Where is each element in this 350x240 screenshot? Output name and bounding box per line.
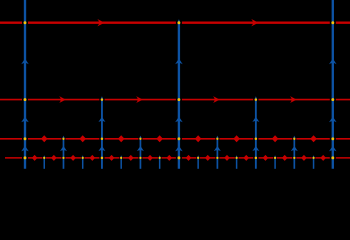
junction gap at (178.9, 138.8) [176, 137, 182, 140]
node: junction dot at (25, 99.6) [24, 98, 27, 101]
arrow tip: level-4 street terminal up-arrow at x=198.14 [197, 155, 199, 157]
node: junction dot at (101.95, 138.8) [101, 138, 104, 141]
arrow tip: level-4 street terminal up-arrow at x=121.19 [120, 155, 122, 157]
arrow: eastbound flow on level-4 road at x=323.18 [320, 155, 326, 161]
arrow: northbound flow on level-1 street at y=119.2 [329, 117, 337, 123]
wire: level-4 vertical street x=313.56 [313, 158, 315, 169]
junction gap at (25, 99.6) [22, 98, 28, 101]
arrow tip: level-4 street terminal up-arrow at x=275.09 [274, 155, 276, 157]
arrow: northbound flow on level-1 street at y=61.15 [329, 59, 337, 65]
arrow: eastbound flow on level-2 road at x=140.43 [136, 96, 143, 103]
arrow: eastbound flow on level-1 road at x=101.95 [97, 19, 104, 26]
wire: level-4 vertical street x=44.24 [43, 158, 45, 169]
junction gap at (159.66, 157.85) [158, 156, 162, 159]
node: junction dot at (101.95, 99.6) [101, 98, 104, 101]
wire: level-4 vertical street x=82.71 [82, 158, 84, 169]
diagram: hierarchical one-way grid network [0, 0, 350, 181]
arrow: eastbound flow on level-3 road at x=121.19 [118, 135, 125, 142]
arrow: eastbound flow on level-4 road at x=73.09 [70, 155, 76, 161]
junction gap at (101.95, 157.85) [99, 156, 104, 159]
arrow: eastbound flow on level-4 road at x=246.23 [243, 155, 249, 161]
arrow tip: level-4 street terminal up-arrow at x=82.71 [82, 155, 84, 157]
junction gap at (101.95, 99.6) [99, 98, 104, 101]
junction gap at (332.8, 22.7) [330, 21, 336, 25]
wire: level-2 vertical street x=101.95 [101, 100, 103, 169]
arrow: eastbound flow on level-3 road at x=236.61 [233, 135, 240, 142]
arrow: eastbound flow on level-4 road at x=226.99 [224, 155, 230, 161]
junction gap at (121.19, 157.85) [119, 156, 123, 159]
node: junction dot at (25, 22.7) [24, 21, 27, 24]
junction gap at (140.43, 157.85) [138, 156, 142, 159]
arrow: eastbound flow on level-4 road at x=265.47 [263, 155, 269, 161]
arrow tip: level-4 street terminal up-arrow at x=44.24 [43, 155, 45, 157]
node: junction dot at (25, 138.8) [24, 137, 27, 140]
junction gap at (178.9, 22.7) [176, 21, 182, 25]
wire: level-3 vertical street x=217.38 [216, 139, 218, 169]
wire: level-2 vertical street x=255.85 [255, 100, 257, 169]
arrow: northbound flow on level-1 street at y=148.32 [175, 146, 183, 152]
arrow tip: level-3 street terminal up-arrow at x=140.43 [139, 136, 141, 139]
junction gap at (178.9, 157.85) [176, 156, 182, 159]
arrow: northbound flow on level-1 street at y=61.15 [175, 59, 183, 65]
node: junction dot at (63.48, 157.85) [62, 157, 64, 159]
node: junction dot at (121.19, 157.85) [120, 157, 122, 159]
arrow: northbound flow on level-3 street at y=148.32 [137, 146, 144, 151]
junction gap at (25, 22.7) [22, 21, 28, 25]
arrow: eastbound flow on level-4 road at x=207.76 [205, 155, 211, 161]
arrow tip: level-2 street terminal up-arrow at x=101.95 [101, 96, 103, 99]
wire: level-4 vertical street x=159.66 [159, 158, 161, 169]
node: junction dot at (25, 157.85) [24, 156, 27, 159]
wire: level-1 vertical street x=332.8 [332, 0, 334, 169]
wire: level-4 vertical street x=275.09 [274, 158, 276, 169]
arrow tip: level-4 street terminal up-arrow at x=159.66 [159, 155, 161, 157]
node: junction dot at (313.56, 157.85) [312, 157, 314, 159]
junction gap at (217.38, 157.85) [215, 156, 219, 159]
arrow: eastbound flow on level-4 road at x=53.86 [51, 155, 57, 161]
node: junction dot at (217.38, 157.85) [216, 157, 218, 159]
junction gap at (332.8, 99.6) [330, 98, 336, 101]
arrow: eastbound flow on level-4 road at x=150.04 [147, 155, 153, 161]
wire: level-3 vertical street x=294.32 [293, 139, 295, 169]
arrow: eastbound flow on level-4 road at x=130.81 [128, 155, 134, 161]
node: junction dot at (332.8, 22.7) [331, 21, 334, 24]
arrow: northbound flow on level-2 street at y=119.2 [252, 117, 259, 122]
node: junction dot at (332.8, 138.8) [331, 137, 334, 140]
arrow: northbound flow on level-1 street at y=148.32 [21, 146, 29, 152]
arrow: eastbound flow on level-2 road at x=63.48 [59, 96, 66, 103]
junction gap at (255.85, 138.8) [253, 137, 258, 140]
wire: level-3 vertical street x=63.48 [62, 139, 64, 169]
arrow tip: level-3 street terminal up-arrow at x=294.32 [293, 136, 295, 139]
junction gap at (63.48, 138.8) [61, 137, 65, 140]
arrow tip: level-3 street terminal up-arrow at x=217.38 [216, 136, 218, 139]
node: junction dot at (294.32, 138.8) [293, 138, 295, 140]
arrow: eastbound flow on level-4 road at x=303.94 [301, 155, 307, 161]
arrow: eastbound flow on level-2 road at x=217.38 [213, 96, 220, 103]
arrow: eastbound flow on level-3 road at x=159.66 [156, 135, 163, 142]
arrow: eastbound flow on level-4 road at x=34.62 [32, 155, 38, 161]
arrow: northbound flow on level-3 street at y=148.32 [60, 146, 67, 151]
node: junction dot at (255.85, 99.6) [255, 98, 258, 101]
node: junction dot at (178.9, 157.85) [177, 156, 180, 159]
arrow: northbound flow on level-1 street at y=119.2 [175, 117, 183, 123]
node: junction dot at (178.9, 99.6) [177, 98, 180, 101]
node: junction dot at (82.71, 157.85) [82, 157, 84, 159]
node: junction dot at (255.85, 157.85) [255, 157, 258, 160]
arrow: eastbound flow on level-3 road at x=82.71 [79, 135, 86, 142]
arrow: eastbound flow on level-3 road at x=275.09 [272, 135, 279, 142]
wire: level-2 arterial road, horizontal red line y=99.6 [0, 99, 350, 101]
junction gap at (255.85, 157.85) [253, 156, 258, 159]
node: junction dot at (44.24, 157.85) [43, 157, 45, 159]
arrow tip: level-4 street terminal up-arrow at x=236.61 [236, 155, 238, 157]
node: junction dot at (140.43, 157.85) [139, 157, 141, 159]
node: junction dot at (332.8, 99.6) [331, 98, 334, 101]
arrow: eastbound flow on level-4 road at x=92.33 [89, 155, 95, 161]
wire: level-4 vertical street x=121.19 [120, 158, 122, 169]
node: junction dot at (236.61, 157.85) [235, 157, 237, 159]
arrow tip: level-1 street terminal up-arrow at x=178.9 [178, 19, 181, 22]
junction gap at (82.71, 157.85) [81, 156, 85, 159]
arrow: eastbound flow on level-3 road at x=313.56 [310, 135, 317, 142]
node: junction dot at (178.9, 22.7) [177, 21, 180, 24]
junction gap at (255.85, 99.6) [253, 98, 258, 101]
node: junction dot at (178.9, 138.8) [177, 137, 180, 140]
junction gap at (140.43, 138.8) [138, 137, 142, 140]
wire: level-4 vertical street x=198.14 [197, 158, 199, 169]
arrow: eastbound flow on level-2 road at x=294.33 [290, 96, 297, 103]
arrow: northbound flow on level-1 street at y=119.2 [21, 117, 29, 123]
wire: level-1 vertical street x=178.9 [178, 23, 180, 169]
arrow: northbound flow on level-2 street at y=148.32 [98, 146, 105, 151]
arrow tip: level-4 street terminal up-arrow at x=313.56 [313, 155, 315, 157]
wire: level-3 vertical street x=140.43 [139, 139, 141, 169]
wire: level-1 vertical street x=25 [24, 0, 26, 169]
arrow: northbound flow on level-1 street at y=61.15 [21, 59, 29, 65]
wire: level-4 vertical street x=236.61 [236, 158, 238, 169]
junction gap at (63.48, 157.85) [61, 156, 65, 159]
junction gap at (44.24, 157.85) [42, 156, 46, 159]
arrow: eastbound flow on level-4 road at x=111.57 [109, 155, 115, 161]
node: junction dot at (101.95, 157.85) [101, 157, 104, 160]
junction gap at (313.56, 157.85) [312, 156, 316, 159]
node: junction dot at (275.09, 157.85) [274, 157, 276, 159]
junction gap at (236.61, 157.85) [235, 156, 239, 159]
arrow: northbound flow on level-3 street at y=148.32 [291, 146, 298, 151]
arrow: northbound flow on level-2 street at y=119.2 [98, 117, 105, 122]
arrow: northbound flow on level-1 street at y=148.32 [329, 146, 337, 152]
arrow: eastbound flow on level-3 road at x=198.14 [195, 135, 202, 142]
node: junction dot at (217.38, 138.8) [216, 138, 218, 140]
node: junction dot at (294.32, 157.85) [293, 157, 295, 159]
arrow: eastbound flow on level-4 road at x=169.28 [166, 155, 172, 161]
arrow: northbound flow on level-2 street at y=148.32 [252, 146, 259, 151]
wire: level-3 arterial road, horizontal red line y=138.8 [0, 138, 350, 140]
node: junction dot at (159.66, 157.85) [159, 157, 161, 159]
arrow: eastbound flow on level-3 road at x=44.24 [41, 135, 48, 142]
junction gap at (198.14, 157.85) [196, 156, 200, 159]
junction gap at (294.32, 138.8) [292, 137, 296, 140]
node: junction dot at (255.85, 138.8) [255, 138, 258, 141]
arrow tip: level-3 street terminal up-arrow at x=63.48 [62, 136, 64, 139]
arrow: eastbound flow on level-1 road at x=255.85 [251, 19, 258, 26]
node: junction dot at (63.48, 138.8) [62, 138, 64, 140]
junction gap at (332.8, 157.85) [330, 156, 336, 159]
node: junction dot at (140.43, 138.8) [139, 138, 141, 140]
wire: level-1 arterial road, horizontal red line y=22.7 [0, 22, 350, 24]
node: junction dot at (198.14, 157.85) [197, 157, 199, 159]
junction gap at (25, 138.8) [22, 137, 28, 140]
arrow: eastbound flow on level-4 road at x=188.52 [186, 155, 192, 161]
junction gap at (294.32, 157.85) [292, 156, 296, 159]
junction gap at (275.09, 157.85) [273, 156, 277, 159]
junction gap at (332.8, 138.8) [330, 137, 336, 140]
junction gap at (101.95, 138.8) [99, 137, 104, 140]
junction gap at (217.38, 138.8) [215, 137, 219, 140]
junction gap at (25, 157.85) [22, 156, 28, 159]
wire: level-4 arterial road, horizontal red line y=157.85 [5, 157, 350, 159]
node: junction dot at (332.8, 157.85) [331, 156, 334, 159]
arrow: eastbound flow on level-4 road at x=284.71 [282, 155, 288, 161]
arrow: northbound flow on level-3 street at y=148.32 [214, 146, 221, 151]
junction gap at (178.9, 99.6) [176, 98, 182, 101]
arrow tip: level-2 street terminal up-arrow at x=255.85 [255, 96, 257, 99]
